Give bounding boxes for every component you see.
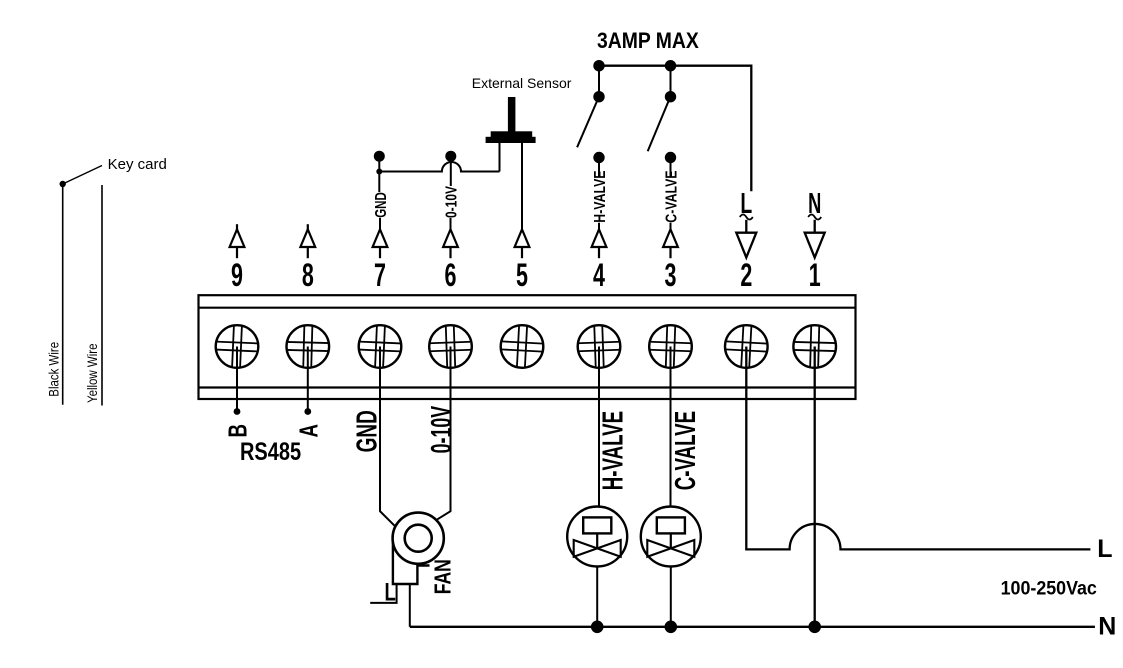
fan outer circle [393,513,444,564]
wire sensor bus to GND with hop over 0-10V [379,162,499,172]
node B dot [234,408,241,415]
arrow terminal 3 [663,229,678,258]
screw terminal 2 [724,325,768,369]
svg-text:5: 5 [516,256,528,293]
wire GND label to arrow 7 [379,218,381,230]
screw terminal 7 [358,325,402,369]
wire H-VALVE label to arrow 4 [598,223,600,230]
svg-text:N: N [1098,613,1116,641]
wire terminal 9 to node B [236,347,238,411]
C-valve actuator box [657,517,685,533]
screw terminal 3 [649,325,692,368]
screw terminal 6 [429,325,472,368]
wire terminal 2 to L line with hop over wire 1 [746,347,1090,550]
junction dot C-valve/N [665,621,678,634]
svg-text:C-VALVE: C-VALVE [670,411,702,490]
junction dot H-valve/N [591,621,604,634]
svg-text:A: A [293,424,323,438]
svg-text:C-VALVE: C-VALVE [663,171,681,223]
svg-text:7: 7 [374,256,386,293]
wire terminal to C-valve [670,347,672,508]
svg-text:3AMP MAX: 3AMP MAX [597,29,699,53]
svg-text:Key card: Key card [108,156,167,173]
tilde under L [740,215,753,220]
svg-text:8: 8 [302,256,314,293]
svg-text:100-250Vac: 100-250Vac [1001,577,1097,599]
wire fan to N line [409,584,411,627]
screw terminal 8 [286,325,329,368]
screw terminal 9 [215,325,259,369]
svg-text:2: 2 [740,256,752,293]
svg-text:9: 9 [231,256,243,293]
key card leader line [63,166,102,185]
wire C-VALVE label to arrow 3 [670,223,672,230]
arrow terminal 8 [300,224,315,258]
svg-text:B: B [223,424,253,438]
black wire (key card) [62,184,64,405]
svg-text:FAN: FAN [430,559,456,594]
screw terminal 4 [577,325,620,368]
junction dot terminal1/N [808,621,821,634]
svg-text:RS485: RS485 [240,438,301,466]
wire terminal 1 to N line [814,347,816,627]
svg-text:0-10V: 0-10V [426,406,459,454]
svg-text:GND: GND [371,192,389,218]
key card contact dot [60,181,66,187]
external sensor body [486,97,536,143]
terminal block [199,295,856,399]
fan body [393,535,430,584]
node GND stub dot [374,151,385,162]
H-valve stem [596,533,598,548]
wire terminal 6 to fan [437,347,451,520]
wire terminal 8 to node A [307,347,309,411]
svg-text:Yellow Wire: Yellow Wire [85,344,100,403]
wire terminal 7 to fan [380,347,395,526]
wire 3A bus to L terminal [599,66,751,192]
C-valve bowtie [647,540,694,557]
svg-text:External Sensor: External Sensor [472,75,572,91]
wire GND stub [378,156,380,192]
wire 0-10V label to arrow 6 [450,218,452,229]
fan inner circle [405,525,432,552]
wire 0-10V stub through hop [450,156,452,186]
node 0-10V stub dot [445,151,456,162]
H-valve bowtie [574,540,621,557]
wire sensor right leg to terminal 5 [521,143,523,229]
switch SW1 (H-VALVE) [577,60,605,177]
H-valve circle [567,507,627,567]
H-valve actuator box [583,517,611,533]
fan L marker wire [370,584,396,603]
svg-text:L: L [1097,535,1112,563]
svg-text:1: 1 [809,256,821,293]
arrow terminal 9 [230,224,245,258]
arrow terminal 7 [373,229,388,258]
N line [410,626,1095,628]
arrow terminal 1 (down) [805,220,825,258]
wire C-valve to N line [670,567,672,627]
switch SW2 (C-VALVE) [648,60,677,177]
svg-text:4: 4 [593,256,605,293]
wire H-valve to N line [596,567,598,627]
arrow terminal 5 [515,229,530,258]
svg-text:L: L [385,578,396,606]
node A dot [304,408,311,415]
yellow wire (key card) [101,185,103,406]
svg-text:H-VALVE: H-VALVE [598,411,630,490]
screw terminal 1 [793,325,836,368]
svg-text:H-VALVE: H-VALVE [591,171,609,223]
svg-text:6: 6 [445,256,457,293]
junction dot GND/sensor [376,169,382,175]
svg-text:3: 3 [665,256,677,293]
C-valve circle [641,507,701,567]
wire terminal to H-valve [598,347,600,508]
C-valve stem [670,533,672,548]
wire sensor left leg [499,143,501,172]
screw terminal 5 [500,325,544,369]
arrow terminal 2 (down) [736,220,756,258]
svg-text:Black Wire: Black Wire [47,342,62,397]
svg-text:0-10V: 0-10V [442,186,460,218]
arrow terminal 6 [443,229,458,258]
tilde under N [808,215,821,220]
arrow terminal 4 [592,229,607,258]
